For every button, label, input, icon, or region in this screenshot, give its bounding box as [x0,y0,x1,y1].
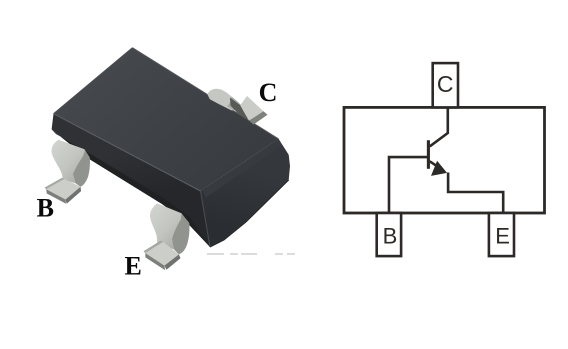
lead B foot front face [46,189,66,203]
collector wire [430,108,448,147]
package front corner edge highlight [201,191,211,247]
svg-text:B: B [383,224,398,249]
package right bottom edge [210,180,289,247]
schematic group [344,63,545,256]
lead B foot top face [46,179,80,200]
svg-text:C: C [259,78,278,107]
package body top face [54,48,279,191]
pin B box [377,213,401,256]
emitter arrowhead [431,161,447,176]
lead E foot right face [164,254,180,269]
lead C foot face [240,96,263,121]
package body front-left face [52,114,210,247]
package outline rect [344,107,545,213]
package body front-left lower shadow [52,129,210,247]
watermark remnant dashes [207,253,295,255]
pin C box [433,63,458,107]
lead C notch shadow [230,98,249,121]
lead B foot right face [66,187,82,204]
lead B foot toe face [45,178,65,190]
base wire [389,157,428,213]
svg-text:E: E [495,224,510,249]
lead B side crescent [73,149,90,187]
package top-left edge highlight [54,48,133,114]
emitter to pin E wire [448,173,503,214]
lead B arc band [52,140,85,184]
package top-right edge highlight [132,48,278,139]
lead E foot top face [145,242,179,266]
emitter wire [430,161,441,169]
package body right end chamfer [202,139,282,198]
lead C hump face [207,89,243,111]
lead E side crescent [172,213,189,254]
lead E arc band [150,203,182,249]
lead E foot toe face [144,241,164,254]
package top-front edge highlight [54,114,201,191]
svg-text:E: E [125,252,142,281]
lead C foot edge face [249,111,268,124]
pin E box [489,213,514,256]
svg-text:C: C [437,71,454,97]
lead C hump shade [227,97,244,111]
package body right end face [201,139,291,247]
svg-text:B: B [37,193,54,222]
base bar [427,140,430,169]
lead E foot front face [145,253,165,270]
